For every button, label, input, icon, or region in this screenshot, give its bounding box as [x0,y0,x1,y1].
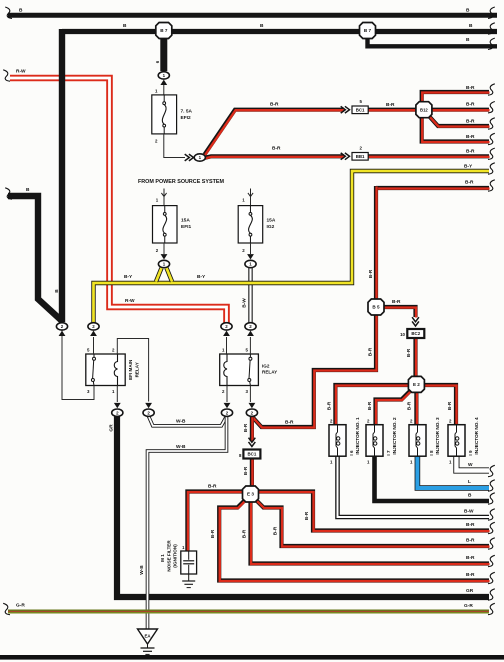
wire B-R B5 to IG2 relay [252,313,377,428]
wire B-R node to BC1 chevron [250,417,255,442]
wire wire fuse EFI1 to node [163,243,165,254]
wire B-R E3 to noise filter [187,492,244,552]
svg-text:B-R: B-R [386,102,395,108]
wire pin line to fuse IG2 [250,197,252,206]
svg-text:INJECTOR NO. 1: INJECTOR NO. 1 [355,417,360,455]
svg-text:B: B [19,8,23,14]
wire-break squiggle B right [488,493,495,504]
svg-text:15A: 15A [181,218,190,224]
connector arrow at node2-ig2-pin3 [249,403,256,408]
node node 2 to IG2 relay pin1 [221,323,232,330]
wire-break squiggle bb1 [488,148,495,159]
svg-text:E 2: E 2 [413,382,420,387]
wire pin line node1 to fuse EFI2 [163,85,165,95]
svg-text:B-R: B-R [368,269,374,278]
svg-text:B 5: B 5 [372,305,380,310]
node node 2 under EFI relay pin1 [112,409,123,416]
svg-text:GR: GR [466,588,474,594]
svg-text:R-W: R-W [16,69,26,75]
node node 2 under IG2 relay pin2 [221,409,232,416]
svg-text:W: W [468,462,473,468]
wire B from left edge [8,196,62,321]
svg-text:B-R: B-R [327,401,333,410]
connector chevron at BC2 in [412,317,419,326]
connector box BC1 (BC1) [352,106,368,114]
svg-text:B-W: B-W [464,509,474,515]
power feed arrow into fuse EFI1 [161,189,166,197]
svg-text:RELAY: RELAY [134,362,139,377]
wire GR wire [117,413,489,597]
node node 2 under IG2 relay pin3 [246,409,257,416]
connector chevron at BB1 in [341,153,350,160]
ground under noise filter [182,574,195,588]
svg-text:G-R: G-R [464,603,473,609]
injector I 9 INJECTOR NO. 4 [448,425,465,457]
wire B drop third branch [368,33,498,46]
svg-text:B12: B12 [420,107,428,112]
svg-text:GR: GR [108,424,114,432]
svg-text:B-R: B-R [272,526,278,535]
wire-break squiggle G-R left [3,603,10,614]
node B5 [368,299,384,315]
svg-text:W-B: W-B [176,418,186,424]
relay EFI MAIN (switch + coil) [86,354,125,386]
wire-break squiggle E3 br1 [488,522,495,533]
wire wire EFI relay pin2 jog [117,339,148,402]
node B7 left [156,23,172,39]
svg-text:EFI1: EFI1 [181,224,191,230]
wire W-B between relay nodes [149,416,227,426]
connector arrow at node1-EFI1 [161,254,168,259]
connector chevron at BC1 lower in [249,438,256,447]
wire B-R E3 branch far-left [219,500,489,582]
svg-text:B-R: B-R [406,348,412,357]
wire B bus top [8,13,497,18]
wire-break squiggle E3 br4 [488,572,495,583]
fuse 7.5A EFI2 [152,95,177,134]
wire IG2 pin5 lead [249,337,251,354]
wire-break squiggle G-R right [488,603,495,614]
connector arrow at node2-ig2-pin2 [224,403,231,408]
svg-text:B-R: B-R [466,149,475,155]
connector chevron at BC1 in [341,106,350,113]
svg-text:15A: 15A [267,218,276,224]
svg-text:B-R: B-R [304,511,310,520]
svg-text:G-R: G-R [16,603,25,609]
wire B-R E3 branch mid-right [256,500,490,547]
svg-text:E 3: E 3 [247,492,254,497]
wire L injector3 return [417,456,489,488]
connector arrow at node2-efi-pin1 [114,403,121,408]
svg-text:B-R: B-R [270,102,279,108]
svg-text:RELAY: RELAY [262,370,277,375]
wire B-R right edge to B5 [374,186,379,302]
connector box BB1 (BB1) [352,153,368,161]
wire B-R branch 3 from B12 [429,116,490,127]
wire B-R to BB1 [205,156,345,158]
wire-break squiggle by right [488,163,495,174]
svg-text:EA: EA [144,634,151,639]
wire B drop to EFI2 fuse [160,31,167,71]
wire B-Y node diag left [156,268,162,282]
connector arrow at node1-IG2 [247,254,254,259]
wire pin line to fuse EFI1 [163,197,165,206]
svg-text:B-R: B-R [367,401,373,410]
wire B-R branch 1 from B12 [422,92,490,103]
wire B-R E2 to injector4 [423,385,457,425]
svg-text:B 7: B 7 [364,28,372,33]
svg-text:IG2: IG2 [267,224,275,230]
svg-text:B: B [468,493,472,499]
injector I 6 INJECTOR NO. 1 [329,425,346,457]
svg-text:7. 5A: 7. 5A [181,109,193,115]
wire B-R E2 to injector3 [414,392,419,425]
svg-text:B-R: B-R [210,529,216,538]
page edge band [0,655,504,660]
connector box BC1 (BC1 lower) [243,450,260,459]
injector I 8 INJECTOR NO. 3 [409,425,426,457]
svg-text:INJECTOR NO. 3: INJECTOR NO. 3 [435,417,440,455]
wire B-Y from EFI relay node to right edge [94,171,490,323]
svg-text:BC1: BC1 [356,107,365,112]
node node 2 to EFI relay pin5 [88,323,99,330]
svg-text:B-R: B-R [466,555,475,561]
node node 1 under fuse EFI1 [158,260,169,267]
node node 1 under B7 [158,72,169,79]
svg-text:L: L [468,479,471,485]
noise filter N1 (capacitor) [181,551,197,574]
wire B injector2 return [375,456,490,501]
wire G-R across bottom [8,610,489,613]
connector arrow at node2-pin3 [59,331,66,336]
wire B-R E2 to injector2 [376,391,412,426]
wire-break squiggle B left [5,188,12,199]
wire B-R branch 2 from B12 [431,108,490,113]
node node 2 to EFI relay pin3 [56,323,67,330]
node E2 [408,376,424,392]
svg-text:B-R: B-R [466,102,475,108]
wire B-R BC2 to E2 [413,338,418,378]
svg-text:NOISE FILTER: NOISE FILTER [166,540,171,572]
svg-text:B: B [26,187,30,193]
wire-break squiggle top bus left [5,7,12,18]
wire pin5 lead [93,337,95,354]
wire B-R top right to edge [376,186,490,191]
svg-text:B-R: B-R [466,522,475,528]
svg-text:10: 10 [400,332,405,337]
svg-text:B-R: B-R [406,401,412,410]
svg-text:B-R: B-R [208,484,217,490]
svg-text:B-Y: B-Y [197,274,206,280]
fuse 15A IG2 [238,206,263,243]
wire-break squiggle br4 [488,133,495,144]
wire-break squiggle bus3 right [488,38,495,49]
svg-text:W-B: W-B [176,444,186,450]
svg-text:B-R: B-R [367,347,373,356]
relay IG2 (coil + switch) [220,354,259,386]
wire-break squiggle B-W right [488,509,495,520]
connector arrow at node2-pin1 [223,331,230,336]
svg-text:EFI MAIN: EFI MAIN [128,359,133,380]
wire B-W fuse IG2 to relay node [248,268,252,323]
wire B-W injector1 return [338,456,490,517]
connector box BC2 (BC2) [407,329,424,338]
svg-text:B-R: B-R [243,423,249,432]
svg-text:I 8: I 8 [429,450,434,456]
wire-break squiggle br1 [488,84,495,95]
wire-break squiggle E3 br2 [488,538,495,549]
svg-text:B-R: B-R [243,466,249,475]
svg-text:B: B [466,37,470,43]
wire wire fuse IG2 to node [250,243,252,254]
wire W-B to ground EA [148,416,227,629]
injector I 7 INJECTOR NO. 2 [366,425,383,457]
svg-text:B-R: B-R [466,119,475,125]
svg-text:B-Y: B-Y [464,164,473,170]
wire-break squiggle top bus right [488,7,495,18]
wire B-R BB1 to right edge [368,154,490,159]
wire B-Y node diag right [167,268,173,282]
node node 2 under EFI relay pin2 [143,409,154,416]
wire B-R E3 branch right [258,492,490,532]
svg-text:B-R: B-R [285,420,294,426]
svg-text:B-R: B-R [392,299,401,305]
svg-text:W-B: W-B [139,565,145,575]
svg-text:B-R: B-R [466,134,475,140]
wire-break squiggle bus2 right [488,23,495,34]
connector arrow at node1-B7 [160,80,167,85]
svg-text:B-R: B-R [466,572,475,578]
wire B bus second [62,29,497,34]
node B12 [416,102,432,118]
svg-text:BC1: BC1 [248,452,257,457]
wire B-R BC1 to B12 [368,108,417,113]
connector arrow at node2-efi-pin2 [145,403,152,408]
svg-text:B-R: B-R [241,529,247,538]
svg-text:B: B [123,23,127,29]
node node 2 to IG2 relay pin5 [245,323,256,330]
svg-text:B: B [469,23,473,29]
svg-text:B 7: B 7 [160,28,168,33]
svg-text:B-R: B-R [466,85,475,91]
node B7 right [360,23,376,39]
wire wire EFI relay pin1 down [116,386,118,403]
wire-break squiggle GR right [488,589,495,600]
wire IG2 pin2 down [226,386,228,403]
svg-text:BB1: BB1 [356,154,365,159]
svg-text:BC2: BC2 [411,331,420,336]
node E3 [243,486,259,502]
fuse 15A EFI1 [153,206,178,243]
wire-break squiggle L right [488,480,495,491]
wire-break squiggle E3 br3 [488,555,495,566]
wire R-W from left edge to IG2 relay [10,78,227,323]
wire-break squiggle R-W left [3,70,10,81]
svg-text:B-R: B-R [272,146,281,152]
wire IG2 pin1 lead [226,337,228,354]
wire-break squiggle W right [488,465,495,476]
node node 1 EFI2 output [194,154,205,161]
svg-text:B-R: B-R [447,401,453,410]
svg-text:FROM POWER SOURCE SYSTEM: FROM POWER SOURCE SYSTEM [138,179,224,185]
svg-text:B-R: B-R [466,538,475,544]
svg-text:(IGNITION): (IGNITION) [173,544,178,568]
wire B-R E2 to injector1 [335,385,409,425]
connector arrow at node2-pin5b [247,331,254,336]
svg-text:INJECTOR NO. 2: INJECTOR NO. 2 [392,417,397,455]
wire wire fuse EFI2 to node [164,134,185,158]
svg-text:EFI2: EFI2 [181,115,191,121]
svg-text:B-R: B-R [465,180,474,186]
svg-text:IG2: IG2 [262,364,270,369]
svg-text:I 9: I 9 [468,450,473,456]
wire B-R B5 to BC2 arrow [383,307,416,318]
svg-text:I 6: I 6 [349,450,354,456]
svg-text:R-W: R-W [125,298,135,304]
wire B-R branch 4 from B12 [422,118,490,143]
node node 1 under fuse IG2 [245,260,256,267]
wire-break squiggle br3 [488,118,495,129]
wire W injector4 return [456,456,489,471]
svg-text:B: B [466,8,470,14]
wire B vertical from bus to EFI relay [59,29,65,322]
ground EA [138,629,158,654]
svg-text:B: B [260,23,264,29]
connector arrow at node2-pin5 [90,331,97,336]
power feed arrow into fuse IG2 [248,189,253,197]
wire-break squiggle br top right [488,180,495,191]
svg-text:INJECTOR NO. 4: INJECTOR NO. 4 [474,417,479,455]
svg-text:I 7: I 7 [386,450,391,456]
connector chevron at EFI2 node in [185,154,194,161]
wire-break squiggle br2 [488,102,495,113]
svg-text:M 1: M 1 [160,554,165,562]
wire wire node to EFI relay pin 3 [62,331,94,400]
svg-text:B-Y: B-Y [124,274,133,280]
wire B-R to BC1 [205,110,345,155]
wire IG2 pin3 down [249,386,251,403]
svg-text:B-W: B-W [241,298,247,308]
svg-text:B: B [54,289,60,293]
wire B-R BC1 to E3 [250,458,255,488]
wire B-R E3 branch mid [251,501,490,564]
